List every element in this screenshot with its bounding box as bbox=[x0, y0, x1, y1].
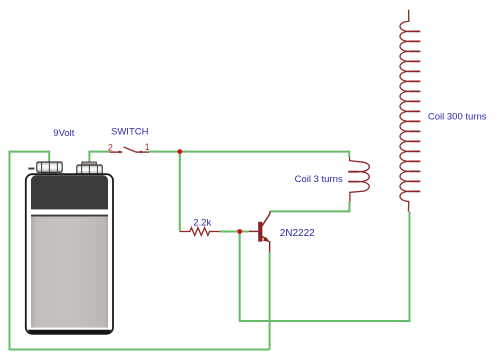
wire battery positive to switch bbox=[89, 152, 110, 163]
minus sign bbox=[28, 168, 34, 170]
battery case outline bbox=[26, 174, 113, 334]
switch terminal 2 lead bbox=[110, 151, 122, 153]
emitter lead bbox=[262, 236, 270, 251]
switch SW1 bbox=[110, 147, 149, 153]
wire node A down to resistor bbox=[179, 152, 181, 232]
svg-text:Coil 3 turns: Coil 3 turns bbox=[295, 174, 343, 185]
collector lead bbox=[262, 211, 270, 226]
svg-text:2N2222: 2N2222 bbox=[280, 228, 315, 239]
battery gray body bbox=[31, 217, 108, 328]
battery dark top section bbox=[31, 175, 108, 209]
inductor L2 back turn lines bbox=[409, 31, 421, 191]
base lead bbox=[249, 230, 258, 232]
positive terminal cap bbox=[82, 162, 97, 165]
switch terminal 1 lead bbox=[136, 151, 149, 153]
svg-text:SWITCH: SWITCH bbox=[111, 127, 149, 138]
switch contact 1 bbox=[140, 151, 142, 153]
battery bottom band bbox=[28, 330, 111, 334]
battery BT1 9Volt bbox=[26, 162, 113, 334]
svg-text:2: 2 bbox=[108, 142, 113, 152]
svg-text:9Volt: 9Volt bbox=[53, 128, 74, 139]
positive terminal cylinder bbox=[77, 165, 102, 174]
svg-text:2.2k: 2.2k bbox=[193, 218, 211, 229]
negative terminal cylinder bbox=[37, 162, 62, 172]
base bar bbox=[258, 222, 262, 242]
wire collector to coil3 bottom bbox=[270, 202, 349, 212]
resistor 2.2k bbox=[180, 228, 220, 236]
wire battery negative loop: left terminal up, left side down, bottom to emitter bbox=[10, 152, 270, 350]
node A junction dot bbox=[177, 149, 182, 154]
inductor L1 Coil 3 turns bbox=[350, 157, 370, 201]
svg-text:Coil 300 turns: Coil 300 turns bbox=[428, 111, 487, 122]
inductor L2 Coil 300 turns bbox=[400, 10, 409, 212]
inductor L1 back turn lines bbox=[348, 172, 360, 182]
battery top shade line bbox=[31, 215, 108, 217]
switch contact 2 bbox=[119, 151, 121, 153]
emitter arrow bbox=[263, 237, 269, 242]
wire switch to coil3 top bbox=[149, 152, 349, 158]
wire resistor to base bbox=[220, 231, 249, 233]
negative terminal base plate bbox=[42, 171, 56, 174]
node B junction dot bbox=[237, 229, 242, 234]
switch lever bbox=[124, 147, 136, 152]
wire node B to coil300 bottom bbox=[240, 211, 410, 321]
transistor Q1 2N2222 bbox=[249, 211, 270, 251]
wire emitter down bbox=[269, 252, 271, 350]
svg-text:1: 1 bbox=[145, 142, 150, 152]
